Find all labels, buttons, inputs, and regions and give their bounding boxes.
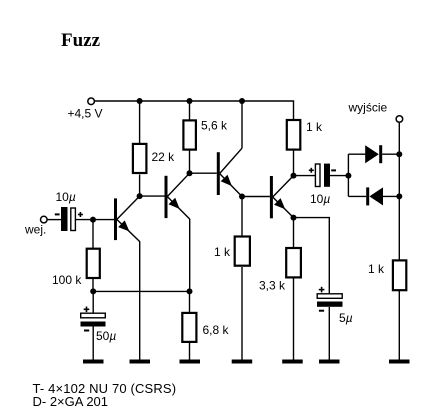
wire R7 to ground (189, 343, 191, 360)
wire R8 to ground (293, 278, 295, 359)
wire T4 collector node to C3 10u (294, 175, 316, 177)
wire C1 to T1 base node (76, 219, 114, 221)
node R7 top (187, 288, 193, 294)
svg-text:10µ: 10µ (310, 192, 330, 206)
node diode left (345, 173, 351, 179)
capacitor C1 10u input (55, 190, 83, 231)
node T2 collector (187, 170, 193, 176)
input terminal wej. (24, 216, 47, 236)
wire C4 to ground (328, 307, 330, 360)
svg-text:+4,5 V: +4,5 V (68, 106, 103, 120)
wire to D2 cathode (348, 195, 366, 197)
svg-text:5µ: 5µ (339, 311, 353, 325)
wire rail to T3 collector (241, 101, 243, 148)
resistor R8 3,3 k (259, 248, 301, 293)
wire R2 to T1 collector node (139, 175, 141, 197)
svg-text:6,8 k: 6,8 k (203, 323, 230, 337)
svg-text:3,3 k: 3,3 k (259, 279, 286, 293)
wire T3 emitter node to R6 1k (241, 197, 243, 237)
capacitor C3 10u output (309, 164, 336, 206)
node rail-T3 collector (239, 98, 245, 104)
wire diode branch vertical (347, 154, 349, 196)
ground under R7 (180, 360, 201, 364)
resistor R6 1 k middle (214, 237, 250, 266)
wire node to C2 50u (92, 291, 94, 313)
resistor R3 5,6 k (183, 119, 228, 150)
node R4-C2 (90, 288, 96, 294)
node T1 base / R4 100k (90, 217, 96, 223)
wire T4 emitter node to R8 3,3k (293, 218, 295, 248)
node rail-22k (137, 98, 143, 104)
wire T3 emitter node to T4 base (242, 196, 270, 198)
ground under T1 emitter (130, 360, 151, 364)
wire T4 emitter node to C4 5u (294, 218, 330, 294)
capacitor C2 50u (81, 307, 117, 344)
resistor R5 1 k top (287, 120, 323, 150)
svg-text:Fuzz: Fuzz (61, 30, 101, 51)
wire input terminal to C1 (47, 219, 61, 221)
resistor R7 6,8 k (182, 313, 229, 342)
wire output rail down (398, 122, 400, 259)
svg-text:wyjście: wyjście (348, 101, 388, 115)
ground under C4 (319, 360, 340, 364)
diode D2 (366, 187, 399, 205)
wire R7 node to R7 6,8k (189, 291, 191, 312)
wire rail to R2 22k (139, 101, 141, 144)
resistor R2 22 k (133, 144, 175, 173)
wire R9 to ground (398, 291, 400, 360)
node D1 cathode rail (396, 151, 402, 157)
node T4 emitter (291, 215, 297, 221)
transistor T4 (270, 176, 294, 219)
svg-text:1 k: 1 k (306, 120, 323, 134)
capacitor C4 5u (317, 287, 353, 325)
wire node to R7 node (crosses T1 emitter wire) (93, 290, 189, 292)
wire top supply rail (95, 101, 294, 119)
diode D1 (365, 145, 399, 163)
node rail-5,6k (187, 98, 193, 104)
ground under C2 (83, 360, 104, 364)
wire R3 to T2 collector node (189, 151, 191, 174)
supply terminal +4,5 V (68, 98, 103, 120)
svg-text:100 k: 100 k (52, 273, 82, 287)
wire T2 collector node to T3 base (190, 172, 217, 174)
wire R5 to T4 collector node (293, 151, 295, 176)
wire rail to R3 5,6k (189, 101, 191, 120)
ground under R6 (232, 360, 253, 364)
svg-text:1 k: 1 k (368, 262, 385, 276)
svg-text:22 k: 22 k (152, 150, 176, 164)
wire T2 emitter down to R7 node (189, 219, 191, 291)
wire C3 to diode node (330, 175, 348, 177)
wire R4 to lower node (92, 279, 94, 291)
wire C2 to ground (92, 327, 94, 360)
svg-text:1 k: 1 k (214, 245, 231, 259)
svg-text:D- 2×GA 201: D- 2×GA 201 (33, 394, 109, 409)
wire to D1 anode (348, 153, 365, 155)
resistor R9 1 k right (368, 260, 406, 290)
node D2 anode rail (396, 193, 402, 199)
wire T1 emitter to ground (139, 242, 141, 360)
wire T1 collector node to T2 base (140, 195, 165, 197)
node T1 collector (137, 193, 143, 199)
ground under R8 (282, 360, 303, 364)
node T4 collector (291, 173, 297, 179)
transistor T2 (165, 173, 190, 219)
node T3 emitter (239, 194, 245, 200)
transistor T3 (217, 148, 242, 196)
svg-text:10µ: 10µ (56, 190, 76, 204)
resistor R4 100 k (52, 249, 100, 287)
wire R6 to ground (241, 267, 243, 360)
svg-text:wej.: wej. (24, 223, 46, 237)
ground under R9 (389, 360, 410, 364)
svg-text:50µ: 50µ (96, 329, 116, 343)
output terminal wyjscie (348, 101, 403, 123)
svg-text:5,6 k: 5,6 k (201, 119, 228, 133)
wire node to R4 100k (92, 220, 94, 248)
transistor T1 (114, 196, 140, 242)
